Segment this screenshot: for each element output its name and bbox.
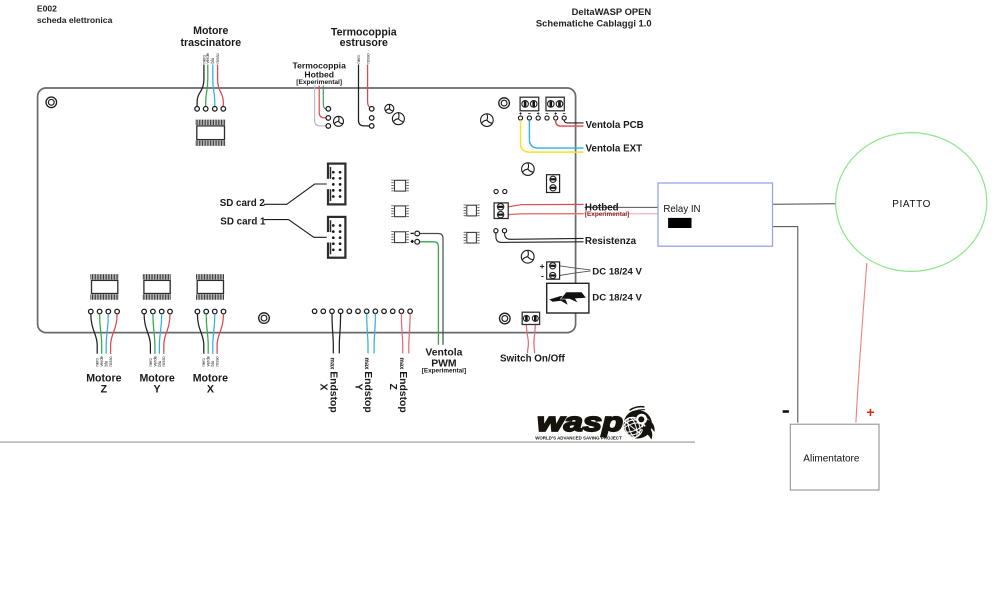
wires motore X (nero verde blu rosso) xyxy=(197,314,223,354)
leader line SD card 2 xyxy=(264,184,327,204)
terminals motore trascinatore xyxy=(195,107,226,112)
power jack DC socket xyxy=(547,283,589,313)
driver chip motore Y xyxy=(143,274,170,300)
IC U4 xyxy=(464,205,480,216)
svg-text:Motore: Motore xyxy=(193,372,228,384)
connector SD card 2 xyxy=(327,164,346,205)
svg-text:[Experimental]: [Experimental] xyxy=(296,79,342,86)
terminal block hotbed xyxy=(494,203,508,219)
label Motore Y xyxy=(139,372,174,395)
terminal block fan 2 xyxy=(546,97,564,111)
PCB board outline xyxy=(38,88,576,333)
wire hotbed red bottom (to relay) xyxy=(508,213,658,216)
wire labels nero rosso (estrusore) xyxy=(356,53,370,64)
terminal block switch xyxy=(522,312,539,324)
svg-text:Ventola PCB: Ventola PCB xyxy=(586,120,644,131)
svg-text:Ventola EXT: Ventola EXT xyxy=(586,144,643,155)
resistenza pins xyxy=(494,229,507,233)
svg-text:WORLD’S ADVANCED SAVING PROJEC: WORLD’S ADVANCED SAVING PROJECT xyxy=(535,436,622,442)
label Ventola PWM Experimental xyxy=(422,347,466,374)
svg-text:Z: Z xyxy=(387,384,398,391)
label Motore Z xyxy=(86,372,121,395)
label minus xyxy=(783,410,789,413)
wire resistenza 2 xyxy=(496,233,584,243)
connector SD card 1 xyxy=(327,217,346,258)
svg-text:Motore: Motore xyxy=(139,372,174,384)
wire ventola PCB red xyxy=(556,120,584,126)
svg-text:nero: nero xyxy=(356,54,361,63)
fan symbol 3 xyxy=(392,113,404,125)
wire ventola PWM black xyxy=(419,234,443,345)
svg-text:Motore: Motore xyxy=(193,25,228,37)
svg-text:DeltaWASP OPEN: DeltaWASP OPEN xyxy=(572,6,652,17)
wires motore trascinatore (nero, verde, blu, rosso) xyxy=(197,65,223,107)
terminals motore Z xyxy=(89,309,120,314)
svg-text:rosso: rosso xyxy=(365,53,370,64)
svg-text:Motore: Motore xyxy=(86,372,121,384)
svg-text:+: + xyxy=(866,404,874,420)
mount hole bottom-right xyxy=(500,313,511,324)
svg-text:SD card 2: SD card 2 xyxy=(220,198,266,209)
svg-text:rosso: rosso xyxy=(215,356,220,367)
mount hole top-left xyxy=(46,97,57,108)
svg-text:Y: Y xyxy=(352,384,363,391)
svg-text:Switch On/Off: Switch On/Off xyxy=(500,354,566,365)
wire estrusore rosso xyxy=(368,65,370,108)
wire ventola PCB black xyxy=(564,120,583,123)
pwm header pins xyxy=(415,231,420,244)
free pin pair xyxy=(494,189,507,193)
wire hotbed-thermo grigio xyxy=(315,86,326,126)
wires motore Z (nero verde blu rosso) xyxy=(91,314,117,354)
wires motore Y (nero verde blu rosso) xyxy=(144,314,170,354)
terminals termocoppia hotbed xyxy=(326,107,331,129)
fan symbol 5 xyxy=(522,163,535,176)
wire hotbed-thermo verde xyxy=(323,86,326,109)
svg-text:rosso: rosso xyxy=(161,356,166,367)
wire ventola EXT blue xyxy=(529,120,583,148)
fan symbol 4 xyxy=(481,114,494,127)
svg-text:DC 18/24 V: DC 18/24 V xyxy=(592,293,642,304)
wire labels colori motore X xyxy=(201,355,219,366)
fan header pins xyxy=(518,116,566,120)
svg-text:scheda elettronica: scheda elettronica xyxy=(37,15,113,25)
wire relay to alimentatore minus xyxy=(773,227,798,423)
label E002 scheda elettronica xyxy=(37,4,113,25)
wire switch red 2 xyxy=(534,325,535,354)
svg-text:SD card 1: SD card 1 xyxy=(220,216,266,227)
svg-text:X: X xyxy=(318,384,329,391)
pwm minus mark xyxy=(411,232,414,234)
fan symbol 6 xyxy=(521,250,534,263)
IC U3 xyxy=(391,232,409,243)
svg-text:DC 18/24 V: DC 18/24 V xyxy=(592,266,642,277)
WASP logo xyxy=(535,407,655,442)
svg-text:[Experimental]: [Experimental] xyxy=(422,368,466,375)
svg-text:estrusore: estrusore xyxy=(340,37,388,49)
2-screw block upper right xyxy=(547,175,560,193)
piatto plate circle xyxy=(836,133,987,272)
terminal block fan 1 xyxy=(520,97,539,111)
wire switch red 1 xyxy=(526,325,528,354)
svg-text:-: - xyxy=(541,270,544,280)
title DeltaWASP OPEN xyxy=(536,6,652,28)
svg-text:Resistenza: Resistenza xyxy=(585,236,637,247)
wire labels colori motore Y xyxy=(148,355,166,366)
label Termocoppia estrusore xyxy=(331,26,397,49)
svg-text:rosso: rosso xyxy=(108,356,113,367)
wire labels colori motore Z xyxy=(95,355,113,366)
wire DC 2 xyxy=(560,271,591,276)
mount hole bottom-center xyxy=(259,313,270,324)
terminals motore X xyxy=(195,309,226,314)
svg-text:E002: E002 xyxy=(37,4,57,14)
wire resistenza 1 xyxy=(505,233,584,240)
svg-text:rosso: rosso xyxy=(215,53,220,64)
label Termocoppia Hotbed Experimental xyxy=(293,61,347,87)
svg-text:Ventola: Ventola xyxy=(425,347,462,358)
svg-text:Alimentatore: Alimentatore xyxy=(803,454,860,465)
mount hole top-right xyxy=(499,98,510,109)
wire DC 1 xyxy=(560,266,591,270)
wire labels nero verde blu rosso (trascinatore) xyxy=(201,52,220,63)
wire estrusore nero xyxy=(359,65,370,126)
terminal block DC xyxy=(547,262,560,279)
svg-text:Relay IN: Relay IN xyxy=(663,204,700,215)
wire piatto to alimentatore plus (red) xyxy=(856,263,867,423)
alimentatore box xyxy=(790,424,879,490)
driver chip motore trascinatore xyxy=(196,120,224,146)
label max Endstop Z xyxy=(387,358,408,413)
wires endstop Y xyxy=(367,314,376,354)
svg-text:Z: Z xyxy=(101,384,108,396)
terminals termocoppia estrusore xyxy=(369,107,374,129)
wire hotbed red top xyxy=(508,204,583,206)
fan symbol 1 xyxy=(334,116,344,126)
svg-text:Hotbed: Hotbed xyxy=(304,70,334,80)
endstop header pins xyxy=(312,309,412,314)
separator line xyxy=(0,441,695,443)
driver chip motore X xyxy=(197,274,224,300)
label Motore trascinatore xyxy=(180,25,241,49)
fan symbol 2 xyxy=(385,104,394,113)
svg-text:[Experimental]: [Experimental] xyxy=(585,211,629,218)
polarity marks fan pins xyxy=(519,112,565,115)
wire ventola PWM green xyxy=(419,242,438,345)
IC U2 xyxy=(391,206,409,217)
IC U5 xyxy=(464,232,480,243)
IC U1 xyxy=(391,180,409,191)
label Motore X xyxy=(193,372,228,395)
label max Endstop X xyxy=(318,358,339,413)
svg-text:Y: Y xyxy=(154,384,161,396)
label max Endstop Y xyxy=(352,358,373,413)
wire relay to piatto xyxy=(773,203,837,205)
wires endstop X xyxy=(332,314,341,354)
terminals motore Y xyxy=(142,309,173,314)
svg-text:Schematiche Cablaggi 1.0: Schematiche Cablaggi 1.0 xyxy=(536,17,652,28)
svg-text:X: X xyxy=(207,384,214,396)
wire hotbed-thermo rosso xyxy=(319,86,326,118)
driver chip motore Z xyxy=(91,274,118,300)
wire hotbed black to relay xyxy=(585,206,659,208)
svg-text:PIATTO: PIATTO xyxy=(892,199,931,210)
svg-text:wasp: wasp xyxy=(537,407,623,437)
pwm plus mark xyxy=(411,240,414,243)
wires endstop Z xyxy=(401,314,410,354)
leader line SD card 1 xyxy=(264,220,327,238)
svg-text:trascinatore: trascinatore xyxy=(180,37,241,49)
relay IN box xyxy=(658,183,773,246)
wire ventola EXT yellow xyxy=(521,120,584,152)
